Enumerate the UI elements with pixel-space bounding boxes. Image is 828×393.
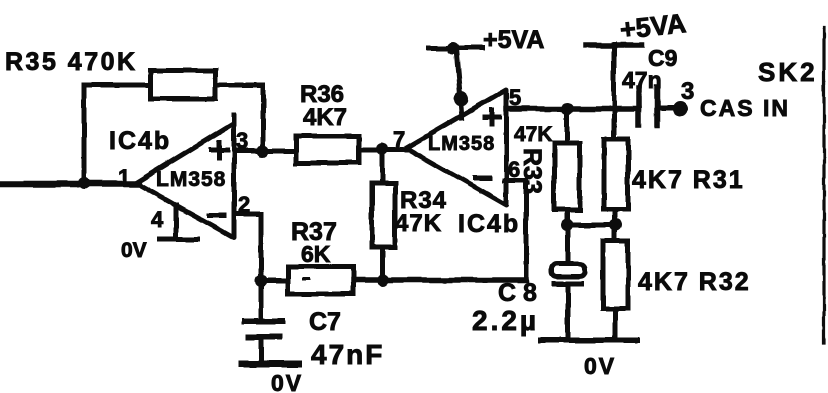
resistor R36 bbox=[296, 136, 359, 163]
resistor R35 bbox=[151, 70, 216, 99]
svg-text:6K: 6K bbox=[301, 241, 331, 267]
op-amp IC4b (U2) bbox=[406, 90, 506, 205]
capacitor C8 top plate bbox=[552, 264, 585, 277]
svg-text:6: 6 bbox=[508, 157, 520, 182]
svg-text:4: 4 bbox=[151, 207, 164, 232]
wire C8 bottom stem bbox=[566, 286, 571, 340]
svg-text:7: 7 bbox=[393, 127, 405, 152]
ground C7 bar bbox=[242, 361, 298, 368]
wire pin5 to C9 bbox=[506, 106, 639, 112]
node bias right junction bbox=[610, 219, 622, 231]
wire junction down to R34 bbox=[380, 149, 385, 183]
ground stem op-amp1 pin4 bbox=[174, 205, 179, 239]
power +5VA left bar bbox=[428, 46, 483, 51]
wire C7 top stem bbox=[259, 281, 264, 319]
svg-text:0V: 0V bbox=[584, 353, 616, 379]
wire R36 to op-amp2 bbox=[359, 148, 406, 153]
svg-text:LM358: LM358 bbox=[156, 168, 226, 191]
node pin7/R34 junction bbox=[376, 143, 388, 155]
node R34 bottom junction bbox=[377, 274, 389, 286]
op-amp1 plus sign bbox=[211, 142, 227, 158]
power +5VA right bar bbox=[586, 42, 642, 48]
wire C8 top stem bbox=[566, 225, 571, 264]
wire bias node horizontal bbox=[565, 223, 618, 228]
svg-text:IC4b: IC4b bbox=[109, 127, 171, 155]
wire overshoot op-amp1 right side bbox=[232, 115, 237, 123]
svg-text:4K7 R32: 4K7 R32 bbox=[638, 268, 751, 296]
svg-text:3: 3 bbox=[236, 128, 248, 153]
svg-text:47nF: 47nF bbox=[311, 339, 384, 370]
capacitor C9 left plate bbox=[636, 88, 642, 125]
pin 8 dot bbox=[454, 92, 469, 107]
capacitor C7 bottom plate bbox=[249, 334, 279, 340]
op-amp2 plus sign bbox=[485, 110, 499, 124]
wire junction to R37 bbox=[261, 279, 288, 284]
node pin3 junction bbox=[257, 145, 269, 157]
wire right edge bbox=[822, 28, 825, 343]
ground op-amp1 bbox=[160, 237, 198, 242]
svg-text:5: 5 bbox=[509, 85, 521, 110]
node pin5/R33 junction bbox=[561, 103, 573, 115]
wire C7 bottom stem bbox=[259, 340, 264, 362]
node feedback/input junction bbox=[78, 177, 90, 189]
capacitor C7 top plate bbox=[245, 318, 282, 324]
svg-text:IC4b: IC4b bbox=[458, 210, 520, 238]
resistor R37 bbox=[288, 267, 353, 294]
resistor R37 inner dot bbox=[304, 278, 309, 281]
svg-text:2: 2 bbox=[238, 192, 250, 217]
wire C9 to terminal bbox=[657, 106, 674, 111]
svg-text:LM358: LM358 bbox=[428, 133, 495, 155]
capacitor C9 right plate bbox=[654, 87, 660, 125]
op-amp IC4b (U1) bbox=[136, 123, 234, 238]
svg-text:+5VA: +5VA bbox=[483, 26, 544, 54]
node +5VA left bar junction bbox=[447, 42, 459, 54]
wire R31 bottom stub bbox=[613, 209, 618, 225]
wire pin2 down bbox=[259, 214, 264, 281]
resistor R34 bbox=[372, 183, 395, 247]
wire feedback down to pin3 bbox=[261, 85, 266, 152]
svg-text:47K: 47K bbox=[395, 210, 442, 237]
wire R32 bottom stem bbox=[613, 308, 618, 340]
wire R33 bottom stub bbox=[565, 210, 570, 225]
svg-text:47n: 47n bbox=[622, 67, 662, 93]
resistor R32 bbox=[603, 241, 628, 308]
wire pin6 vertical bbox=[524, 180, 529, 280]
power +5VA right stem to R31 bbox=[612, 44, 617, 139]
svg-text:3: 3 bbox=[681, 78, 694, 105]
wire pin6 stub bbox=[504, 178, 526, 183]
svg-text:R35 470K: R35 470K bbox=[5, 48, 138, 76]
svg-text:R33: R33 bbox=[518, 148, 546, 194]
wire main input bbox=[0, 181, 136, 188]
svg-text:C 8: C 8 bbox=[498, 279, 537, 307]
svg-text:SK2: SK2 bbox=[758, 57, 818, 87]
resistor R31 bbox=[604, 139, 628, 209]
wire pin2 out bbox=[234, 212, 261, 217]
node bias left junction bbox=[561, 219, 573, 231]
wire R37 right to pin6 loop bbox=[353, 277, 526, 283]
svg-text:4K7: 4K7 bbox=[303, 104, 347, 131]
op-amp2 minus sign bbox=[475, 176, 489, 181]
op-amp1 minus sign bbox=[209, 213, 224, 218]
resistor R33 bbox=[554, 143, 580, 210]
svg-text:0V: 0V bbox=[121, 239, 147, 262]
node pin2/R37/C7 junction bbox=[255, 275, 267, 287]
node SK2 pin3 terminal bbox=[673, 102, 688, 117]
wire R33 top stub bbox=[565, 109, 570, 143]
wire pin3 to R36 bbox=[234, 149, 296, 154]
capacitor C8 bottom plate bbox=[554, 282, 582, 287]
ground bottom-right bar bbox=[541, 337, 636, 343]
svg-text:0V: 0V bbox=[271, 370, 303, 393]
svg-text:47K: 47K bbox=[514, 123, 553, 146]
wire R35 right bbox=[216, 83, 263, 88]
svg-text:CAS IN: CAS IN bbox=[700, 95, 790, 121]
svg-text:2.2µ: 2.2µ bbox=[472, 305, 539, 336]
wire feedback up bbox=[82, 85, 87, 183]
wire R34 bottom bbox=[380, 247, 385, 280]
power +5VA left stem bbox=[456, 48, 462, 118]
svg-text:C7: C7 bbox=[309, 308, 341, 336]
wire R32 top stub bbox=[613, 225, 618, 241]
svg-text:4K7 R31: 4K7 R31 bbox=[632, 166, 745, 194]
svg-text:1: 1 bbox=[118, 165, 130, 190]
wire feedback top-left to R35 bbox=[84, 83, 151, 88]
